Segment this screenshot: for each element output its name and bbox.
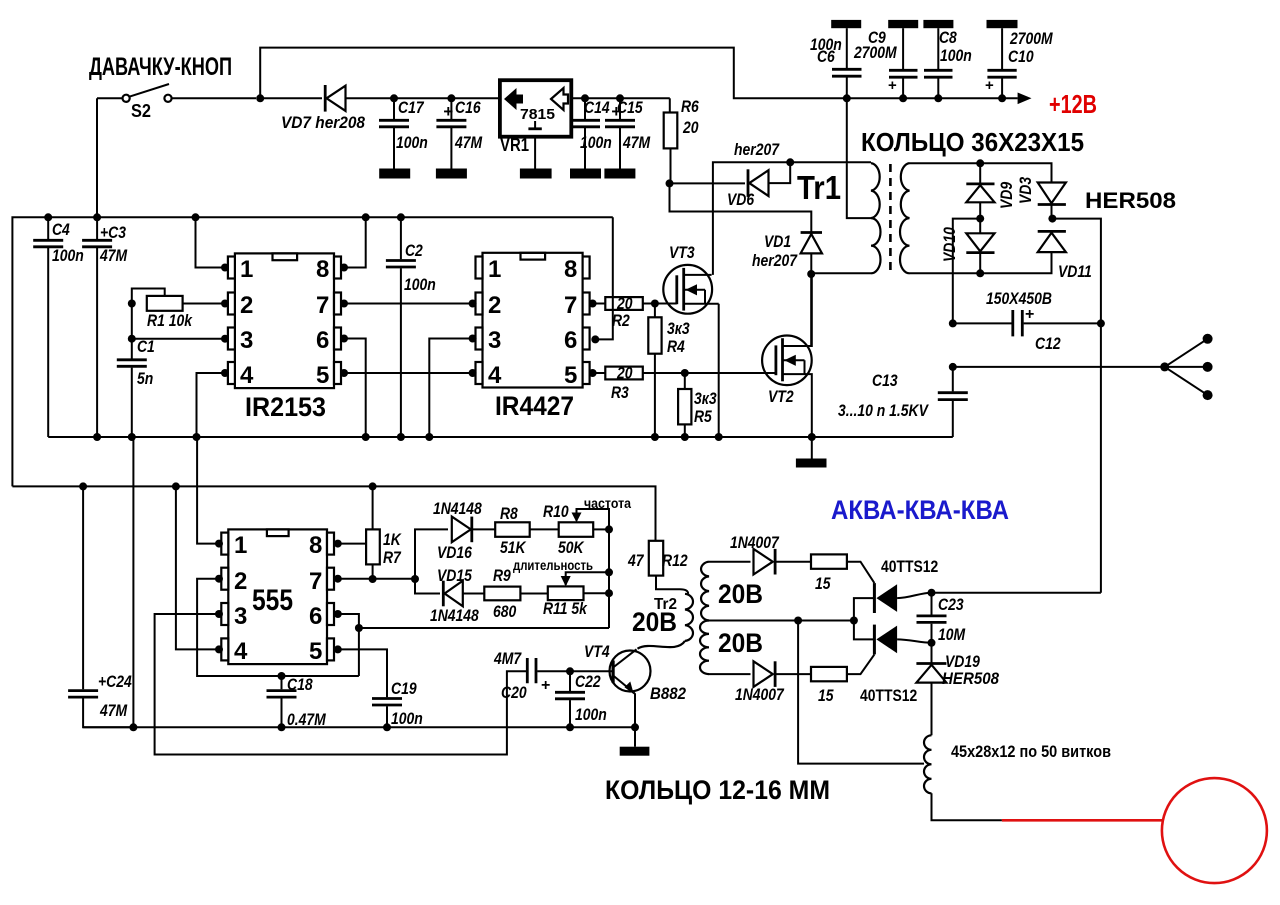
capacitor C12 150X450B	[949, 289, 1105, 353]
svg-text:0.47M: 0.47M	[287, 710, 326, 729]
svg-text:R6: R6	[681, 97, 699, 116]
wire IR2153 pin8 riser up	[362, 213, 370, 221]
thyristor VS1 40TTS12 upper	[874, 557, 938, 613]
transistor VT4 B882	[570, 642, 686, 727]
wire IR2153 pin6 riser down	[344, 339, 366, 438]
svg-text:7815: 7815	[520, 106, 555, 123]
svg-text:C22: C22	[575, 672, 601, 691]
svg-text:47M: 47M	[99, 701, 128, 720]
svg-text:6: 6	[316, 327, 329, 354]
svg-text:100n: 100n	[52, 246, 84, 265]
svg-text:100n: 100n	[940, 46, 972, 65]
capacitor C9 2700M with rail bar	[853, 20, 918, 102]
transformer Tr2 secondary winding 2	[700, 621, 763, 675]
svg-text:40TTS12: 40TTS12	[860, 686, 917, 705]
wire VD6 row	[670, 182, 746, 184]
ground at VT2 source	[808, 433, 816, 441]
capacitor C23 10M	[917, 593, 966, 647]
svg-text:IR4427: IR4427	[495, 391, 574, 421]
svg-text:R4: R4	[667, 337, 685, 356]
wire pin7 node down to VD15 row	[415, 579, 440, 594]
transformer Tr2 secondary winding 1	[701, 562, 763, 621]
node VD1 anode / VT2 drain / Tr1 bottom	[807, 270, 815, 278]
svg-text:5: 5	[564, 362, 577, 389]
svg-text:C10: C10	[1008, 47, 1034, 66]
svg-text:1K: 1K	[383, 530, 402, 549]
svg-text:20В: 20В	[632, 607, 677, 637]
wire VT3 source to ground bus	[718, 304, 720, 437]
svg-text:150X450B: 150X450B	[986, 289, 1052, 308]
capacitor C18 0.47M	[267, 672, 327, 731]
svg-text:1: 1	[488, 256, 501, 283]
resistor R8 51K	[495, 504, 559, 557]
wire rail VD7 to R6 corner	[260, 97, 322, 99]
svg-text:C14: C14	[584, 98, 610, 117]
wire +12 rail through caps	[847, 97, 1018, 99]
capacitor C19 100n	[372, 679, 423, 731]
thyristor VS2 40TTS12 lower	[860, 625, 932, 705]
svg-text:100n: 100n	[391, 709, 423, 728]
wire IR2153 pin1 riser	[192, 213, 200, 221]
wire IR2153 pin7 to IR4427 pin2	[344, 303, 473, 305]
wire IR4427 pin3 riser down	[429, 339, 472, 438]
svg-text:6: 6	[309, 603, 322, 630]
svg-text:47M: 47M	[622, 133, 651, 152]
svg-text:1: 1	[234, 532, 247, 559]
svg-text:5: 5	[309, 638, 322, 665]
svg-text:C6: C6	[817, 47, 835, 66]
svg-text:VT4: VT4	[584, 642, 610, 661]
svg-text:VD11: VD11	[1058, 262, 1092, 281]
svg-text:4M7: 4M7	[493, 649, 522, 668]
svg-text:3: 3	[234, 603, 247, 630]
resistor R2 20	[593, 294, 655, 330]
svg-text:2: 2	[234, 568, 247, 595]
capacitor C2 100n	[386, 213, 436, 441]
node R3 / R5	[681, 369, 689, 377]
switch S2	[97, 84, 256, 121]
svg-text:4: 4	[488, 362, 502, 389]
resistor R3 20	[593, 364, 776, 403]
transformer Tr1 secondary winding	[900, 163, 910, 273]
svg-text:4: 4	[234, 638, 248, 665]
resistor R12 47	[627, 541, 688, 594]
svg-text:5n: 5n	[137, 369, 153, 388]
svg-text:VD7 her208: VD7 her208	[281, 113, 365, 132]
svg-text:+C3: +C3	[100, 223, 126, 242]
capacitor C16	[436, 94, 483, 178]
svg-text:1N4007: 1N4007	[730, 533, 780, 552]
svg-text:3к3: 3к3	[667, 319, 690, 338]
svg-text:100n: 100n	[396, 133, 428, 152]
svg-text:10M: 10M	[938, 625, 966, 644]
wire IR4427 pin6 riser to top bus	[595, 217, 613, 339]
svg-text:+: +	[443, 102, 453, 121]
wire Tr1 primary bottom to VT2 drain	[811, 273, 871, 346]
diode VD16 1N4148	[433, 499, 495, 562]
svg-text:47: 47	[627, 551, 645, 570]
svg-text:C8: C8	[939, 28, 957, 47]
diode VD7 her208	[281, 85, 500, 132]
svg-text:VD3: VD3	[1016, 176, 1035, 204]
svg-text:R1 10k: R1 10k	[147, 311, 193, 330]
transformer Tr1 primary winding	[871, 163, 881, 273]
svg-text:+: +	[611, 102, 621, 121]
svg-text:R11 5k: R11 5k	[543, 599, 588, 618]
svg-text:40TTS12: 40TTS12	[881, 557, 938, 576]
svg-text:2: 2	[240, 292, 253, 319]
transistor VT3 MOSFET	[655, 243, 719, 314]
svg-text:VD16: VD16	[437, 543, 472, 562]
IC U1 IR2153	[221, 253, 348, 422]
capacitor C1 5n	[117, 304, 155, 442]
svg-text:20В: 20В	[718, 628, 763, 658]
capacitor C6 100n with rail bar	[810, 20, 862, 102]
wire Tr2 sec bottom row	[709, 673, 751, 675]
wire IR2153 pin4 riser	[197, 373, 226, 437]
svg-text:КОЛЬЦО 12-16 ММ: КОЛЬЦО 12-16 ММ	[605, 775, 830, 805]
wire +12 rail down to Tr1 center tap	[846, 98, 848, 163]
svg-text:частота: частота	[584, 495, 631, 511]
svg-text:3к3: 3к3	[694, 389, 717, 408]
svg-text:C19: C19	[391, 679, 417, 698]
svg-text:7: 7	[316, 292, 329, 319]
svg-text:VT2: VT2	[768, 387, 794, 406]
svg-text:C23: C23	[938, 595, 964, 614]
svg-text:15: 15	[818, 686, 834, 705]
svg-text:АКВА-КВА-КВА: АКВА-КВА-КВА	[831, 495, 1009, 525]
svg-text:100n: 100n	[404, 275, 436, 294]
svg-text:C18: C18	[287, 675, 313, 694]
svg-text:8: 8	[316, 256, 329, 283]
wire Tr2 sec mid row	[709, 620, 854, 622]
wire thyristor cathode links	[854, 598, 875, 639]
wire R10/R11 node to 555 pin6 row	[359, 627, 609, 629]
resistor 15 upper	[811, 554, 874, 593]
ground at VT4 emitter	[631, 723, 639, 731]
transistor VT2 MOSFET	[762, 274, 812, 437]
wire red output lead	[1002, 819, 1163, 822]
resistor R4 3к3	[648, 304, 690, 442]
node VT3 gate / R4	[651, 300, 659, 308]
svg-text:VD1: VD1	[764, 232, 791, 251]
node bridge minus	[976, 215, 984, 223]
voltage regulator VR1 7815	[500, 80, 670, 178]
svg-text:R12: R12	[662, 551, 688, 570]
svg-text:+: +	[541, 677, 550, 694]
svg-text:15: 15	[815, 574, 831, 593]
wire 555 pin7 row	[338, 578, 415, 580]
svg-text:8: 8	[564, 256, 577, 283]
wire 555 pin3 long route	[155, 614, 526, 755]
svg-text:2700M: 2700M	[1009, 29, 1053, 48]
svg-text:7: 7	[564, 292, 577, 319]
svg-text:R7: R7	[383, 548, 402, 567]
svg-text:R5: R5	[694, 407, 712, 426]
svg-text:her207: her207	[752, 251, 798, 270]
capacitor C10 2700M with rail bar	[985, 20, 1053, 102]
svg-text:+: +	[985, 77, 994, 94]
svg-text:50K: 50K	[558, 538, 585, 557]
svg-text:R9: R9	[493, 566, 511, 585]
svg-text:+12В: +12В	[1049, 89, 1097, 119]
diode VD9	[966, 163, 1016, 218]
svg-text:IR2153: IR2153	[245, 392, 326, 422]
svg-text:C20: C20	[501, 683, 527, 702]
node bridge plus	[1048, 215, 1056, 223]
svg-text:S2: S2	[131, 101, 151, 121]
wire top bypass rail	[260, 48, 846, 99]
svg-text:C17: C17	[398, 98, 425, 117]
transformer Tr2 primary	[632, 594, 693, 649]
capacitor C17	[379, 94, 428, 178]
wire 15V distribution bus	[12, 486, 655, 540]
node junction above VD7	[256, 94, 264, 102]
wire R6 node to VD6 row and down to VD1 row	[666, 179, 674, 187]
wire 555 pin5 to C19	[338, 649, 387, 697]
svg-text:R3: R3	[611, 383, 629, 402]
wire her207 net: VT3 drain riser and to Tr1 top	[786, 158, 794, 166]
svg-text:длительность: длительность	[513, 557, 593, 573]
wire mid-left vertical bus to bottom bus	[132, 436, 134, 438]
diode VD upper 1N4007	[730, 533, 811, 575]
output coil red circle	[1162, 778, 1267, 883]
svg-text:4: 4	[240, 362, 254, 389]
svg-text:680: 680	[493, 602, 517, 621]
Tr1 core	[889, 164, 892, 272]
svg-text:1: 1	[240, 256, 253, 283]
inductor L1 45x28x12	[924, 735, 1111, 820]
wire output fan row	[949, 363, 957, 371]
svg-text:100n: 100n	[580, 133, 612, 152]
svg-text:C13: C13	[872, 371, 898, 390]
wire 555 pin1 riser	[197, 437, 219, 544]
svg-text:3...10 n 1.5KV: 3...10 n 1.5KV	[838, 401, 929, 420]
svg-text:R8: R8	[500, 504, 518, 523]
wire IR2153 pin3 to C1 node	[132, 338, 225, 340]
potentiometer R10 50K	[543, 495, 631, 557]
svg-text:20В: 20В	[718, 579, 763, 609]
wire pin7 node up to VD16 row	[415, 529, 448, 579]
capacitor C13	[838, 367, 968, 437]
svg-text:C16: C16	[455, 98, 481, 117]
svg-text:45x28x12 по 50 витков: 45x28x12 по 50 витков	[951, 742, 1111, 761]
svg-text:1N4148: 1N4148	[433, 499, 482, 518]
node output fan	[1160, 334, 1212, 400]
svg-text:ДАВАЧКУ-КНОП: ДАВАЧКУ-КНОП	[89, 53, 232, 81]
svg-text:47M: 47M	[454, 133, 483, 152]
svg-text:VR1: VR1	[500, 135, 529, 155]
wire R10 node down	[608, 529, 610, 628]
resistor R6 20	[664, 97, 700, 183]
resistor R1 10k trimmer	[128, 289, 225, 331]
svg-text:VD9: VD9	[997, 181, 1016, 209]
diode VD3	[1016, 176, 1066, 218]
IC U2 IR4427	[469, 253, 600, 421]
resistor R7 1K	[366, 482, 402, 579]
wire main ground bus	[48, 436, 953, 438]
IC U3 555	[215, 529, 342, 665]
svg-text:3: 3	[240, 327, 253, 354]
svg-text:C1: C1	[137, 337, 155, 356]
wire IR2153 pin5 to IR4427 pin4	[344, 372, 473, 374]
svg-text:B882: B882	[650, 684, 686, 703]
wire secondary top rail	[910, 163, 1052, 182]
svg-text:100n: 100n	[575, 705, 607, 724]
capacitor C24 47M	[68, 482, 133, 727]
wire secondary bottom rail	[910, 252, 1052, 273]
wire bottom ground bus	[83, 726, 636, 728]
wire Tr2 sec top row	[709, 561, 751, 563]
svg-text:1N4007: 1N4007	[735, 685, 785, 704]
resistor 15 lower	[811, 654, 874, 705]
capacitor C14	[570, 94, 612, 178]
svg-text:5: 5	[316, 362, 329, 389]
diode VD lower 1N4007	[735, 661, 811, 704]
wire switch column down to bus	[96, 98, 98, 217]
svg-text:8: 8	[309, 532, 322, 559]
svg-text:7: 7	[309, 568, 322, 595]
svg-text:HER508: HER508	[942, 669, 999, 688]
svg-text:+: +	[888, 77, 897, 94]
svg-text:R10: R10	[543, 502, 569, 521]
wire 555 pin8 to R7	[338, 543, 366, 545]
diode VD11	[1038, 231, 1092, 281]
diode VD10	[940, 219, 995, 274]
capacitor C15	[604, 94, 650, 178]
svg-text:20: 20	[682, 118, 699, 137]
svg-text:1N4148: 1N4148	[430, 606, 479, 625]
svg-text:C2: C2	[405, 241, 423, 260]
svg-text:51K: 51K	[500, 538, 527, 557]
wire 555 pin4 riser	[172, 482, 180, 490]
svg-text:C12: C12	[1035, 334, 1061, 353]
svg-text:+: +	[1025, 306, 1034, 323]
svg-text:КОЛЬЦО 36X23X15: КОЛЬЦО 36X23X15	[861, 127, 1084, 157]
node +12V arrow	[1018, 93, 1032, 105]
svg-text:her207: her207	[734, 140, 780, 159]
svg-text:VD15: VD15	[437, 566, 472, 585]
diode VD1 her207	[752, 232, 822, 274]
svg-text:R2: R2	[612, 311, 630, 330]
capacitor C3 47M	[82, 213, 128, 441]
svg-text:VT3: VT3	[669, 243, 695, 262]
diode VD6 her207	[727, 140, 790, 209]
resistor R5 3к3	[678, 373, 717, 441]
svg-text:HER508: HER508	[1085, 188, 1176, 213]
svg-text:6: 6	[564, 327, 577, 354]
svg-text:Tr1: Tr1	[797, 169, 841, 206]
diode VD19 HER508	[916, 643, 999, 736]
capacitor C8 100n with rail bar	[923, 20, 971, 102]
svg-text:2700M: 2700M	[853, 43, 897, 62]
wire 555 pin6	[338, 614, 359, 676]
wire 555 pin2 to C18 node	[197, 579, 359, 676]
svg-text:VD6: VD6	[727, 190, 755, 209]
wire mid node down to inductor	[798, 621, 924, 764]
wire top supply bus	[12, 217, 612, 486]
svg-text:VD10: VD10	[940, 227, 959, 262]
capacitor C20 4M7	[493, 649, 570, 702]
capacitor C22 100n	[555, 667, 607, 731]
svg-text:C4: C4	[52, 220, 70, 239]
svg-text:2: 2	[488, 292, 501, 319]
svg-text:555: 555	[252, 584, 293, 617]
resistor R9 680	[484, 566, 548, 621]
svg-text:3: 3	[488, 327, 501, 354]
diode VD15 1N4148	[430, 566, 484, 625]
svg-text:+C24: +C24	[98, 672, 132, 691]
potentiometer R11 5k	[513, 557, 613, 618]
svg-text:20: 20	[616, 364, 633, 383]
capacitor C4	[33, 213, 84, 437]
wire thyristor output row to right column	[928, 589, 936, 597]
svg-text:47M: 47M	[99, 246, 128, 265]
